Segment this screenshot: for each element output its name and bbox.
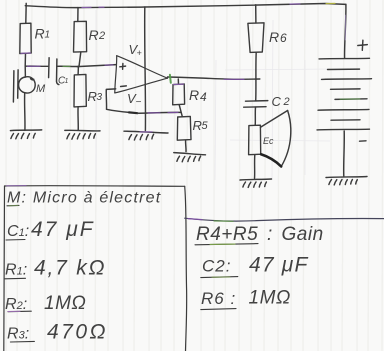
svg-text:R: R [35,26,45,42]
svg-text:R: R [89,27,99,43]
svg-text:1: 1 [65,78,69,85]
svg-text:Ec: Ec [263,136,274,146]
svg-text:Gain: Gain [282,224,324,245]
svg-text:1: 1 [45,30,51,41]
svg-text:4: 4 [200,90,207,104]
svg-text:47 μF: 47 μF [31,218,95,241]
svg-text:5: 5 [202,120,209,132]
svg-text:1MΩ: 1MΩ [44,293,86,314]
svg-text:C1:: C1: [7,223,29,240]
svg-text:R: R [269,29,279,45]
svg-text:6: 6 [280,31,287,45]
svg-text::: : [267,224,272,245]
svg-text:R: R [193,118,202,133]
svg-text:C2:: C2: [202,257,231,276]
svg-text:M: Micro à électret: M: Micro à électret [7,190,161,207]
svg-text:M: M [36,83,46,95]
svg-text:470Ω: 470Ω [47,321,108,344]
svg-text:R6 :: R6 : [201,289,236,308]
svg-text:+: + [137,48,142,58]
svg-text:4,7 kΩ: 4,7 kΩ [34,257,106,280]
svg-text:3: 3 [97,92,103,103]
svg-text:C: C [272,94,282,109]
svg-text:R4+R5: R4+R5 [196,224,258,245]
svg-text:R: R [88,89,97,104]
svg-text:1MΩ: 1MΩ [249,288,291,309]
svg-text:R: R [189,87,199,103]
svg-text:47 μF: 47 μF [249,254,309,277]
svg-text:2: 2 [98,30,105,42]
svg-text:R2:: R2: [5,296,27,313]
svg-text:−: − [136,97,142,108]
svg-text:2: 2 [283,96,290,108]
svg-text:R3:: R3: [7,326,29,343]
svg-text:R1:: R1: [5,262,27,279]
